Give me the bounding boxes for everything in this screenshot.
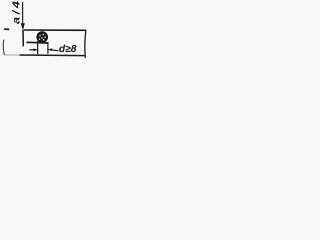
bottom sheet bottom edge (faint left part) bbox=[5, 54, 21, 56]
background bbox=[0, 0, 90, 65]
top sheet left end edge bbox=[22, 30, 24, 46]
d dimension line right tail bbox=[49, 50, 59, 51]
d dimension right extension line bbox=[47, 43, 49, 54]
dimension leader a/4 (vertical line) bbox=[22, 2, 24, 24]
d dimension line left tail bbox=[29, 49, 37, 51]
right break edge bbox=[85, 30, 86, 58]
svg-text:d≥8: d≥8 bbox=[59, 44, 77, 55]
d dimension right arrowhead bbox=[48, 48, 52, 51]
arrowhead of a/4 leader bbox=[21, 23, 25, 30]
weld hatch speckles bbox=[39, 34, 46, 41]
weld nugget circle bbox=[37, 32, 47, 42]
sheet interface line bbox=[27, 41, 49, 44]
top sheet top edge bbox=[24, 29, 86, 31]
bottom sheet bottom edge bbox=[20, 54, 86, 57]
svg-text:a/4: a/4 bbox=[12, 0, 23, 24]
d dimension left arrowhead bbox=[33, 48, 37, 51]
stray scan dash top-left bbox=[4, 28, 9, 30]
d dimension left extension line bbox=[37, 41, 39, 54]
left break edge bbox=[3, 40, 4, 55]
